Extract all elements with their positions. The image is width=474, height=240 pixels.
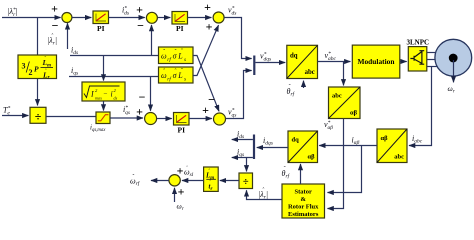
wire SC2 to PI2 xyxy=(157,17,170,19)
wire bus line bottom xyxy=(427,66,438,68)
svg-text:Stator: Stator xyxy=(295,189,312,196)
svg-text:Estimators: Estimators xyxy=(288,211,319,218)
wire theta_rf stub into DQ1 xyxy=(303,81,305,88)
node splitter bar idqs xyxy=(253,135,255,160)
svg-text:dq: dq xyxy=(292,137,300,144)
svg-text:dq: dq xyxy=(290,52,298,59)
svg-text:+: + xyxy=(204,0,211,14)
wire i_qs feedback line xyxy=(69,76,159,78)
svg-text:αβ: αβ xyxy=(350,110,358,117)
svg-text:s: s xyxy=(184,57,186,63)
svg-text:abc: abc xyxy=(332,93,342,100)
wire i_alphabeta tap to estimator xyxy=(328,146,362,193)
svg-text:3: 3 xyxy=(22,62,26,71)
wire v_ds* to merge bar xyxy=(224,18,252,59)
wire v_qs* to merge bar xyxy=(226,71,252,119)
block decoupling B2 xyxy=(159,67,194,83)
summer SC4 vqs xyxy=(214,113,226,125)
block DQ2 alphabeta to dq xyxy=(288,131,318,163)
svg-text:2: 2 xyxy=(29,68,33,77)
block 3/2 P Lm/Lr gain xyxy=(18,55,57,81)
summer SC5 q-current xyxy=(145,113,157,125)
svg-text:αβ: αβ xyxy=(381,135,389,142)
wire lambda_r_hat feedback stub xyxy=(67,23,69,49)
wire D2 to Lm/tr block xyxy=(220,180,239,182)
summer SC6 speed xyxy=(169,175,180,186)
svg-text:−: − xyxy=(137,19,144,33)
block stator rotor flux estimators xyxy=(282,184,325,218)
wire i_ds tap to sqrt box xyxy=(103,56,105,81)
block PI3 q-current controller xyxy=(174,113,190,135)
wire Modulation to 3LNPC xyxy=(400,61,407,63)
svg-text:+: + xyxy=(178,185,185,199)
wire bus line mid xyxy=(427,59,436,61)
svg-text:−: − xyxy=(104,90,108,98)
svg-text:max: max xyxy=(95,96,102,101)
svg-text:−: − xyxy=(208,93,215,107)
machine induction motor xyxy=(435,39,472,76)
svg-text:PI: PI xyxy=(176,24,184,33)
svg-text:÷: ÷ xyxy=(35,110,42,124)
svg-text:−: − xyxy=(139,90,146,104)
wire SC5 to PI3 xyxy=(157,118,172,120)
svg-text:P: P xyxy=(34,65,39,74)
svg-text:−: − xyxy=(52,19,59,33)
wire omega_r shaft arrow xyxy=(453,60,455,82)
block saturation limiter xyxy=(90,112,110,133)
wire lambda_r_hat from estimator to D2 xyxy=(247,190,283,199)
block PI2 d-current controller xyxy=(172,12,188,34)
wire omega_r into SC6 xyxy=(174,188,176,202)
wire SC1 to PI1 xyxy=(72,17,92,19)
block DQ1 dq to abc xyxy=(287,45,318,78)
wire DQ2 to splitter bar xyxy=(257,147,288,149)
svg-text:+: + xyxy=(136,105,143,119)
wire bus line top xyxy=(427,52,438,54)
wire 3/2P box down to divider xyxy=(37,79,39,106)
block divider D1 xyxy=(30,107,46,123)
block A3 abc to alphabeta current xyxy=(377,129,407,163)
svg-text:ds: ds xyxy=(114,96,118,101)
svg-text:PI: PI xyxy=(178,126,186,135)
wire i_qs stub xyxy=(232,157,253,159)
node merge bar vdqs xyxy=(253,56,255,76)
summer SC2 d-current xyxy=(146,12,157,23)
svg-text:&: & xyxy=(300,196,306,203)
wire sqrt box to saturation xyxy=(103,101,105,111)
block PI1 flux controller xyxy=(93,11,109,33)
block sqrt limit calc xyxy=(82,82,125,101)
svg-text:Modulation: Modulation xyxy=(358,57,395,66)
wire i_ds feedback up to SC2 xyxy=(151,25,153,56)
wire i_abc measurement xyxy=(409,67,432,146)
svg-text:PI: PI xyxy=(97,24,105,33)
wire PI1 to SC2 xyxy=(109,17,145,19)
wire i_alphabeta to DQ2 xyxy=(319,145,377,147)
wire DQ1 to Modulation xyxy=(318,61,351,63)
svg-text:i: i xyxy=(111,90,113,99)
wire theta_rf estimator to DQ2 xyxy=(300,164,302,184)
wire B2 diagonal to SC3 xyxy=(193,25,219,75)
svg-text:+: + xyxy=(136,3,143,17)
wire branch to 3/2P box xyxy=(37,18,39,56)
wire v_abc tap down to A2 xyxy=(343,62,345,86)
svg-text:I: I xyxy=(90,90,94,99)
wire i_ds stub xyxy=(232,139,253,141)
wire PI2 to SC3 xyxy=(188,17,212,19)
svg-text:+: + xyxy=(51,2,58,16)
wire v_alphabeta to estimator xyxy=(328,119,344,209)
block Modulation xyxy=(352,45,400,78)
svg-text:abc: abc xyxy=(394,154,404,161)
summer SC3 vds xyxy=(213,12,224,23)
wire PI3 to SC4 xyxy=(189,118,212,120)
wire i_qs tap down to divider D2 xyxy=(246,158,248,172)
block Lm over tau_r xyxy=(204,167,219,192)
svg-text:abc: abc xyxy=(305,69,315,76)
svg-text:+: + xyxy=(206,20,213,34)
block 3LNPC inverter xyxy=(408,47,427,71)
svg-text:Rotor Flux: Rotor Flux xyxy=(288,204,319,211)
wire saturation to SC5 xyxy=(110,117,143,119)
svg-text:÷: ÷ xyxy=(243,177,249,188)
wire i_ds feedback line xyxy=(70,55,159,57)
wire Te* input xyxy=(2,115,28,117)
svg-text:3LNPC: 3LNPC xyxy=(407,39,430,47)
wire lambda_r* input xyxy=(2,17,61,19)
wire D1 to saturation xyxy=(46,116,96,118)
block A2 abc to alphabeta xyxy=(329,87,361,119)
summer SC1 flux xyxy=(62,13,72,23)
svg-text:αβ: αβ xyxy=(307,154,315,161)
wire omega_rf output xyxy=(151,180,169,182)
svg-text:s: s xyxy=(184,76,186,82)
block divider D2 xyxy=(239,173,253,189)
wire B1 diagonal to SC4 xyxy=(193,56,219,112)
block decoupling B1 xyxy=(159,47,194,64)
wire merge bar to DQ1 xyxy=(255,62,285,64)
wire i_qs feedback down to SC5 xyxy=(150,77,152,111)
wire Lm/tr to SC6 xyxy=(182,180,204,182)
